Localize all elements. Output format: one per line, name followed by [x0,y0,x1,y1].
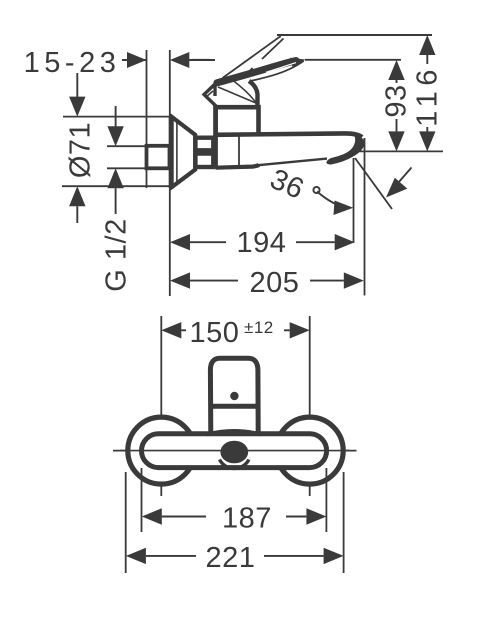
body top edge [216,133,362,137]
body left edge [213,105,218,168]
wire ext 205 [364,138,366,296]
svg-text:221: 221 [206,542,256,574]
handle front [210,358,258,436]
escutcheon circle right [276,417,343,484]
svg-text:150: 150 [190,317,240,349]
dim 221 line [126,548,146,564]
node line B grip-top reference [192,59,210,61]
s-union nut [195,138,213,167]
dim 187 line [142,508,162,524]
svg-text:187: 187 [222,503,272,535]
dome bump [207,431,261,435]
svg-text:G 1/2: G 1/2 [101,218,133,291]
node line C spout centerline [221,150,443,152]
dim G1/2 arrows [115,106,117,127]
svg-text:Ø71: Ø71 [65,122,97,178]
centerline re-draw over capsule [120,450,350,452]
escutcheon cone [171,116,195,187]
lever grip thin underline [250,61,304,81]
wire center vertical left [160,316,162,496]
svg-text:93: 93 [381,84,413,117]
lever chin [204,84,217,107]
G 1/2 square pipe tail [147,146,170,169]
dim 93 vertical [388,60,404,80]
lever neck back edge [249,81,258,106]
svg-text:15-23: 15-23 [24,47,121,79]
svg-text:194: 194 [237,227,287,259]
dim 150 line [161,322,181,338]
escutcheon circle left [128,417,195,484]
lever thin top outline 2 [262,39,284,60]
dim 221 extension lines [125,472,127,573]
body-spout divider [238,136,240,167]
node line A top reference [277,34,432,36]
dim G1/2 extension lines [107,145,147,147]
svg-text:205: 205 [250,267,300,299]
wire horizontal centerline [113,450,357,452]
faucet body white fill [216,133,364,167]
node 36deg angle leg [355,158,392,209]
node 36deg leader arrow b [398,168,412,184]
dim 194 line [170,234,190,250]
handle screw dot [230,392,238,400]
spout tip crescent [326,134,365,165]
cartridge nut ellipse [220,441,248,464]
lever grip bold [217,61,296,83]
svg-text:116: 116 [411,64,443,127]
dim 116 vertical [419,35,435,55]
dim Ø71 arrows [76,73,78,97]
node 36deg leader arrow a [317,192,347,208]
lever thin top outline 1 [223,36,281,78]
cartridge housing [216,107,259,135]
body bottom edge [216,165,259,168]
lever inner diagonal [218,87,256,103]
cartridge ring arc [220,460,249,469]
wire wall line left [146,50,148,146]
body capsule [142,434,327,468]
wire ext 194 [353,158,355,243]
wire wall line right [169,50,171,296]
lever front edge [213,84,216,97]
spout underside [258,159,327,166]
svg-text:±12: ±12 [244,318,274,337]
wire center vertical right [309,316,311,496]
dim 15-23 line [122,59,147,61]
dim 187 extension lines [141,468,143,532]
dim Ø71 extension lines [63,116,170,118]
dim 205 line [170,272,190,288]
